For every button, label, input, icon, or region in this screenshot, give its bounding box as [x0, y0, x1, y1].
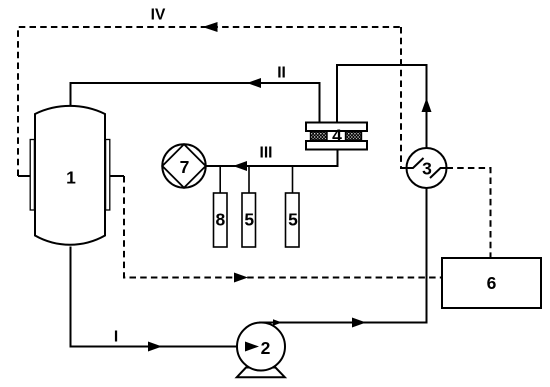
compressor 7 [162, 144, 205, 187]
wire IV right drop to exchanger 3 (dashed) [401, 27, 407, 168]
label 2 [261, 338, 271, 358]
arrow into pump 2 [245, 342, 259, 352]
cylinder 5 (right) [286, 193, 300, 247]
svg-text:4: 4 [332, 126, 342, 146]
svg-text:IV: IV [151, 7, 166, 24]
svg-text:6: 6 [487, 273, 497, 293]
svg-text:1: 1 [66, 168, 76, 188]
label 7 [180, 157, 190, 177]
arrow on stream II [247, 78, 261, 88]
svg-text:5: 5 [244, 210, 254, 230]
wire from exchanger 3 top to module 4 top [337, 65, 427, 149]
arrow on pump outlet line [352, 318, 366, 328]
label II [277, 65, 286, 82]
wire stream I: vessel bottom to pump 2 [71, 247, 247, 347]
label 6 [487, 273, 497, 293]
svg-text:3: 3 [422, 159, 432, 179]
vessel 1 [30, 106, 110, 245]
arrow on dashed wire to box 6 [234, 273, 248, 283]
wire IV top (dashed) [18, 27, 401, 176]
svg-text:II: II [277, 65, 286, 82]
label 1 [66, 168, 76, 188]
tap wire to cylinder 5 (right) [292, 166, 294, 193]
pump 2 [237, 323, 285, 378]
membrane module 4 [306, 123, 367, 150]
svg-text:8: 8 [216, 210, 226, 230]
svg-text:2: 2 [261, 338, 271, 358]
label 8 [216, 210, 226, 230]
label IV [151, 7, 166, 24]
arrow on stream III [233, 161, 247, 171]
svg-text:5: 5 [288, 210, 298, 230]
box 6 [442, 258, 541, 308]
tap wire to cylinder 8 [219, 166, 221, 193]
label 3 [422, 159, 432, 179]
label III [260, 145, 273, 162]
cylinder 5 (left) [242, 193, 256, 247]
dashed wire exchanger 3 to box 6 [447, 168, 491, 258]
label I [114, 329, 118, 346]
small arrow at pump 2 outlet [273, 319, 282, 325]
tap wire to cylinder 5 (left) [248, 166, 250, 193]
label 4 [332, 126, 342, 146]
svg-text:I: I [114, 329, 118, 346]
wire pump 2 outlet to exchanger 3 [259, 189, 427, 323]
left nozzle stub of vessel 1 [18, 175, 30, 177]
svg-text:7: 7 [180, 157, 190, 177]
label 5 (right) [288, 210, 298, 230]
wire II from module 4 to vessel 1 [71, 83, 320, 123]
heat exchanger 3 [407, 148, 447, 188]
dashed wire vessel 1 to box 6 [124, 176, 442, 278]
label 5 (left) [244, 210, 254, 230]
arrow on stream I [148, 342, 162, 352]
right nozzle stub of vessel 1 [110, 175, 124, 177]
wire stream III: module 4 bottom to compressor 7 [206, 150, 338, 167]
arrow on stream IV [203, 22, 218, 32]
cylinder 8 [214, 193, 228, 247]
svg-text:III: III [260, 145, 273, 162]
arrow up on exchanger 3 riser [422, 98, 432, 112]
